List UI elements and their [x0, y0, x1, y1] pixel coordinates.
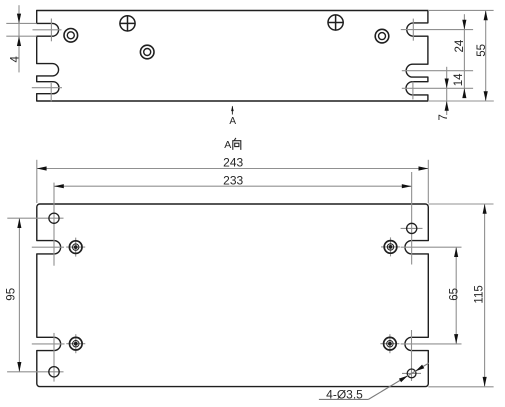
- label A-xiang (view A): [224, 138, 241, 151]
- svg-text:55: 55: [476, 44, 488, 57]
- extension line top edge: [428, 9, 494, 11]
- double ring hole B: [140, 45, 154, 59]
- centerline vertical left bottom: [53, 333, 55, 382]
- dimension 14: [445, 67, 466, 101]
- double ring hole A: [64, 29, 78, 43]
- rivet hole LT: [66, 238, 85, 257]
- centerline corner hole RT: [401, 227, 423, 229]
- dimension 243: [37, 156, 429, 203]
- crosshair hole top view right: [328, 15, 344, 31]
- svg-text:A: A: [224, 139, 231, 151]
- corner hole RB: [407, 369, 416, 378]
- rivet hole RT: [381, 237, 400, 256]
- view arrow A: [229, 106, 236, 127]
- callout 4-dia3.5 with leader: [319, 363, 429, 401]
- svg-text:95: 95: [6, 288, 18, 301]
- svg-text:14: 14: [453, 73, 465, 86]
- centerline slot L1: [33, 19, 62, 42]
- svg-text:24: 24: [454, 39, 466, 52]
- svg-text:65: 65: [449, 288, 461, 301]
- corner hole LB: [49, 367, 59, 377]
- dimension 24: [454, 14, 466, 98]
- top view plate outline with edge keyhole slots: [37, 11, 428, 102]
- dimension 95: [6, 218, 22, 372]
- rivet hole LB: [66, 334, 85, 353]
- centerline slot R2: [402, 70, 473, 72]
- corner hole RT: [407, 223, 417, 233]
- bottom view plate outline with edge keyhole slots: [37, 204, 429, 387]
- extension line bottom edge: [428, 100, 494, 102]
- svg-text:4: 4: [9, 56, 21, 63]
- svg-text:233: 233: [223, 174, 243, 188]
- svg-text:A: A: [229, 116, 236, 127]
- centerline slot left top: [32, 246, 64, 248]
- centerline slot R1: [401, 19, 473, 41]
- dimension 65: [449, 247, 461, 344]
- svg-text:7: 7: [438, 114, 450, 120]
- centerline corner hole RB: [402, 372, 421, 374]
- rivet hole RB: [380, 334, 399, 353]
- crosshair hole top view left: [120, 16, 136, 32]
- dimension 4 slot width: [6, 5, 36, 72]
- centerline vertical right bottom: [411, 330, 413, 381]
- centerline slot right top: [401, 246, 462, 248]
- centerline vertical right top: [411, 172, 413, 265]
- centerline vertical left top: [53, 183, 55, 266]
- centerline corner hole LB: [7, 371, 63, 373]
- dimension 7: [438, 101, 450, 121]
- centerline slot left bottom: [32, 343, 65, 345]
- centerline corner hole LT: [7, 217, 63, 219]
- corner hole LT: [49, 213, 59, 223]
- dimension 115: [428, 204, 493, 387]
- centerline slot L3: [32, 83, 62, 101]
- centerline slot R3: [402, 82, 473, 100]
- dimension 233: [54, 174, 412, 189]
- dimension 55: [476, 10, 488, 101]
- svg-text:115: 115: [473, 285, 485, 303]
- centerline slot right bottom: [401, 343, 462, 345]
- double ring hole C: [375, 29, 389, 43]
- svg-text:243: 243: [223, 156, 243, 170]
